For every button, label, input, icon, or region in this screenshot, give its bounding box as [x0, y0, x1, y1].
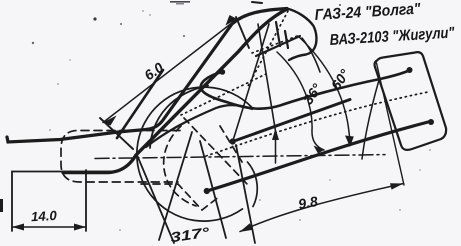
arc 36 — [277, 52, 324, 150]
pivot ball joint P2 — [204, 188, 210, 194]
rod R1: pivot1 straight — [233, 100, 350, 142]
svg-text:14.0: 14.0 — [31, 208, 58, 224]
swoop curve: hook dot to handle top dot — [201, 71, 409, 109]
dashed zigzag bottom — [141, 184, 220, 210]
curve2 thin lever variant — [146, 105, 252, 147]
dimension 6.0 line — [103, 19, 237, 123]
knob interior rising line — [256, 36, 300, 56]
steep line D (circle edge down) — [137, 155, 174, 243]
arrow 6.0 right — [226, 15, 238, 26]
arrow vertical small — [272, 129, 279, 141]
arrow 9.8 right — [390, 183, 403, 189]
handle end dot lower — [428, 119, 434, 125]
dimension 9.8 line — [240, 184, 404, 232]
steep line C pivot2 — [200, 141, 226, 238]
pivot ball joint P1 — [230, 138, 236, 144]
knob outline (GAZ-24 handle) — [287, 9, 316, 61]
arrow 9.8 left — [240, 223, 253, 232]
rod R2: pivot2 to handle bottom — [207, 122, 430, 192]
hook end dot — [220, 69, 226, 75]
dash-dot centerline — [95, 155, 385, 159]
dotted line 2 — [181, 74, 266, 115]
dashed short diagonal 2 — [220, 126, 242, 162]
dashed inner arc blob — [164, 126, 196, 206]
dimension 6.0 extension tick left — [100, 118, 133, 149]
big circle open arc (lever base housing) — [137, 87, 252, 221]
steep line B — [236, 145, 255, 243]
steep line A — [159, 132, 192, 240]
svg-text:9.8: 9.8 — [297, 193, 319, 212]
steep thin line V1 (knob to pivot zone) — [258, 24, 276, 134]
extension line at right handle corner — [377, 63, 405, 185]
dashed diagonal (mirrored lever position) — [184, 118, 248, 185]
dotted line 3 near knob bottom — [252, 35, 300, 53]
lever main (horizontal 2 + ascender to knob apex) — [63, 9, 287, 173]
small bottom-right arc — [248, 162, 258, 207]
short vertical V3b — [285, 31, 288, 48]
arrow arc60 bottom — [345, 136, 354, 148]
dimension 6.0 extension tick right — [236, 17, 249, 48]
arrow arc36 bottom — [314, 146, 325, 154]
lever GAZ-24 upper shaft (horizontal 1 + ascender) — [7, 9, 287, 143]
extension curve right (near handle) — [362, 80, 379, 159]
inner oval arc (boot opening) — [150, 86, 208, 149]
handle end dot upper — [407, 67, 413, 73]
14.0 dimension box — [12, 172, 112, 232]
arrow 14.0 right — [74, 224, 86, 231]
arrow 14.0 left — [12, 224, 24, 231]
doubled lever stroke — [117, 70, 163, 138]
small vertical arrow near centerline — [275, 132, 277, 164]
Zhiguli handle outline — [375, 52, 447, 150]
arrow 6.0 left — [103, 116, 117, 126]
steep thin line V2 (pivot1 to knob) — [233, 24, 269, 142]
short vertical V3 — [276, 22, 280, 46]
dotted line 1 (trajectory) — [206, 92, 428, 156]
dashed boot outline (rounded rect left) — [61, 131, 180, 183]
dotted line steep from apex — [247, 11, 288, 88]
arc 60 — [298, 36, 350, 145]
arc60 upper blend — [302, 38, 320, 72]
